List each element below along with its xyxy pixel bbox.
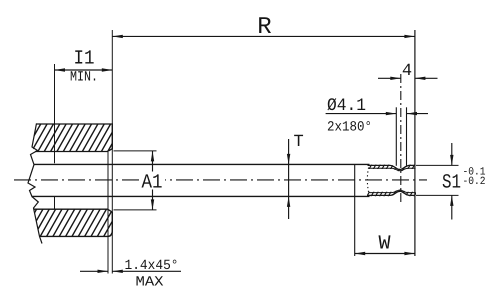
hole right edge — [406, 107, 408, 166]
dimension chamfer arrow left — [98, 270, 109, 273]
dimension T arrow bottom — [287, 196, 290, 207]
dimension 4 right line — [415, 77, 438, 79]
dimension R arrow right — [404, 35, 415, 38]
upper block outline — [35, 124, 112, 152]
dimension R arrow left — [112, 35, 123, 38]
svg-text:2x180°: 2x180° — [327, 120, 372, 136]
dimension S1 arrow bottom — [450, 195, 453, 206]
knurl bottom outer edge — [368, 191, 415, 195]
dimension W line — [355, 253, 415, 255]
knurl ticks bottom — [366, 186, 420, 198]
svg-text:MIN.: MIN. — [70, 70, 98, 86]
end face + R/W extension line — [414, 30, 416, 256]
svg-text:1.4x45°: 1.4x45° — [125, 258, 179, 274]
dimension hole arrow right — [407, 112, 418, 115]
dimension A1 line lower — [152, 190, 154, 210]
knurl top inner edge — [370, 168, 415, 171]
dimension W arrow left — [355, 252, 366, 255]
S1 extension line upper — [416, 164, 459, 166]
dimension A1 arrow top — [151, 151, 154, 162]
A1 text knockout — [140, 172, 165, 190]
shaft bottom edge — [32, 195, 370, 197]
hatched block lower (section) — [20, 208, 126, 239]
dimension 4 left line — [378, 77, 401, 79]
dimension I1 arrow right — [102, 68, 113, 71]
knurl top outer edge — [368, 165, 415, 169]
dimension chamfer left line — [80, 270, 108, 272]
dimension I1 arrow left — [55, 68, 66, 71]
dimension S1 arrow top — [450, 155, 453, 166]
knurl transition hidden line (dotted) — [367, 168, 368, 194]
step line + W extension — [354, 165, 356, 256]
svg-text:MAX: MAX — [136, 275, 165, 291]
hole centerline — [400, 74, 402, 202]
I1 extension line lower — [54, 196, 56, 209]
dimension hole line left — [326, 113, 397, 115]
lower block outline — [34, 209, 113, 236]
bore extension line upper — [114, 150, 157, 152]
dimension A1 line upper — [152, 151, 154, 172]
dimension A1 arrow bottom — [151, 199, 154, 210]
hatched block upper (section) — [18, 122, 131, 153]
svg-text:-0.2: -0.2 — [463, 176, 486, 188]
dimension S1 line lower — [451, 195, 453, 219]
S1 extension line lower — [416, 194, 459, 196]
dimension chamfer arrow right — [112, 270, 123, 273]
dimension chamfer right line — [112, 270, 181, 272]
dimension 4 arrow left — [390, 77, 401, 80]
svg-text:4: 4 — [402, 62, 412, 81]
knurl ticks top — [366, 163, 420, 175]
knurl bottom inner edge — [370, 190, 415, 193]
shaft top edge — [34, 163, 370, 165]
dimension I1 line — [55, 69, 113, 71]
main centerline — [14, 179, 427, 181]
svg-text:R: R — [257, 14, 271, 41]
dimension 4 arrow right — [415, 77, 426, 80]
dimension R line — [112, 35, 415, 37]
I1 extension line upper — [54, 64, 56, 163]
bore extension line lower — [114, 209, 157, 211]
svg-text:T: T — [294, 133, 304, 152]
dimension T arrow top — [287, 154, 290, 165]
dimension T line — [288, 139, 290, 219]
hole left edge — [395, 107, 397, 166]
dimension hole line right — [407, 113, 429, 115]
dimension hole arrow left — [386, 112, 397, 115]
svg-text:A1: A1 — [142, 172, 163, 195]
svg-text:Ø4.1: Ø4.1 — [327, 96, 366, 116]
svg-text:S1: S1 — [442, 172, 461, 195]
break line (left end) — [28, 123, 42, 243]
face extension line — [111, 30, 113, 274]
svg-text:W: W — [378, 233, 390, 256]
dimension W arrow right — [404, 252, 415, 255]
svg-text:I1: I1 — [74, 48, 95, 71]
dimension S1 line upper — [451, 143, 453, 165]
chamfer extension line — [107, 152, 109, 274]
